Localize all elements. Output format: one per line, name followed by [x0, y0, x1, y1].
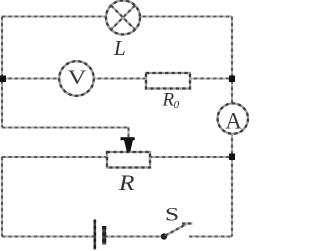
svg-text:R: R [118, 171, 135, 195]
svg-text:V: V [68, 66, 87, 88]
svg-text:A: A [225, 109, 242, 134]
svg-text:L: L [113, 36, 126, 60]
svg-text:S: S [165, 204, 179, 225]
